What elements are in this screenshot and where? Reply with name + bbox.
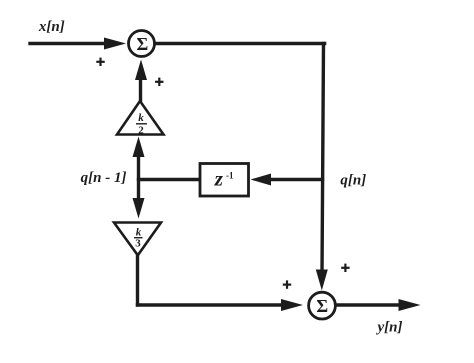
svg-text:Σ: Σ [316,296,328,316]
svg-text:k: k [138,112,144,124]
svg-text:z: z [214,166,224,190]
svg-text:x[n]: x[n] [38,19,65,35]
svg-text:q[n]: q[n] [340,172,366,188]
svg-text:3: 3 [135,238,141,250]
svg-text:q[n - 1]: q[n - 1] [81,170,127,186]
svg-text:Σ: Σ [137,34,149,54]
svg-text:y[n]: y[n] [376,320,403,336]
svg-text:-1: -1 [226,171,234,181]
svg-text:2: 2 [138,125,144,137]
